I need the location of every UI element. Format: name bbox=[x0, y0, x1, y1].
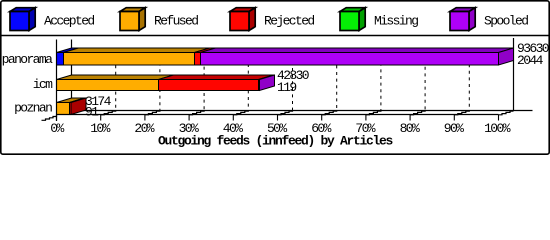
legend cube Accepted side face bbox=[29, 8, 35, 31]
legend cube Refused side face bbox=[139, 8, 145, 31]
svg-text:Spooled: Spooled bbox=[484, 13, 528, 28]
legend cube Accepted top face bbox=[10, 8, 35, 12]
back-right wall (100% back plane) bbox=[513, 38, 515, 111]
legend cube Rejected top face bbox=[230, 8, 255, 12]
gridline 20% (dashed) bbox=[159, 48, 161, 110]
gridline 80% (dashed) bbox=[424, 48, 426, 110]
x-axis tick 30% 3d flag diagonal bbox=[189, 111, 204, 115]
legend cube Refused top face bbox=[120, 8, 145, 12]
svg-text:Missing: Missing bbox=[374, 13, 418, 28]
x-axis tick 10% bbox=[100, 115, 102, 121]
back-left wall (0% back plane) bbox=[71, 40, 73, 111]
axis front-left corner diagonal bbox=[42, 115, 57, 120]
legend cube Refused front face bbox=[120, 12, 139, 31]
x-axis tick 100% bbox=[498, 115, 500, 121]
legend cube Missing front face bbox=[340, 12, 359, 31]
legend cube Rejected side face bbox=[249, 8, 255, 31]
x-axis tick 30% bbox=[188, 115, 190, 121]
bar panorama segment red top face bbox=[195, 48, 216, 53]
back axis line bbox=[72, 110, 533, 112]
x-axis tick 10% 3d flag diagonal bbox=[101, 111, 116, 115]
svg-text:poznan: poznan bbox=[14, 101, 52, 116]
gridline 50% (dashed) bbox=[292, 48, 294, 110]
x-axis tick 50% 3d flag diagonal bbox=[278, 111, 293, 115]
svg-text:Rejected: Rejected bbox=[264, 13, 314, 28]
x-axis tick 70% bbox=[365, 115, 367, 121]
outer border bbox=[1, 1, 549, 154]
bar panorama segment blue front face bbox=[57, 53, 64, 66]
legend separator line bbox=[1, 35, 549, 37]
gridline 40% (dashed) bbox=[247, 48, 249, 110]
bar panorama end cap purple bbox=[499, 48, 514, 65]
x-axis tick 90% bbox=[453, 115, 455, 121]
svg-text:icm: icm bbox=[33, 77, 53, 92]
bar icm segment red top face bbox=[159, 75, 274, 80]
legend cube Spooled side face bbox=[469, 8, 475, 31]
svg-text:panorama: panorama bbox=[2, 52, 53, 67]
axis front-right corner diagonal bbox=[499, 111, 514, 115]
legend cube Missing side face bbox=[359, 8, 365, 31]
gridline 90% (dashed) bbox=[468, 48, 470, 110]
svg-text:119: 119 bbox=[277, 80, 296, 95]
bar icm segment purple top face bbox=[259, 75, 275, 80]
svg-text:Refused: Refused bbox=[154, 13, 198, 28]
x-axis tick 0% bbox=[56, 115, 58, 121]
bar poznan end cap red bbox=[71, 98, 86, 115]
x-axis tick 90% 3d flag diagonal bbox=[454, 111, 469, 115]
legend cube Missing top face bbox=[340, 8, 365, 12]
svg-text:2044: 2044 bbox=[517, 53, 544, 68]
x-axis tick 80% 3d flag diagonal bbox=[410, 111, 425, 115]
legend cube Spooled top face bbox=[450, 8, 475, 12]
bar panorama segment orange front face bbox=[64, 53, 195, 66]
x-axis tick 70% 3d flag diagonal bbox=[366, 111, 381, 115]
gridline 60% (dashed) bbox=[336, 48, 338, 110]
svg-text:0%: 0% bbox=[50, 121, 64, 136]
svg-text:20%: 20% bbox=[134, 121, 154, 136]
x-axis tick 20% bbox=[144, 115, 146, 121]
x-axis tick 40% 3d flag diagonal bbox=[233, 111, 248, 115]
legend cube Spooled front face bbox=[450, 12, 469, 31]
bar panorama segment orange top face bbox=[64, 48, 210, 53]
bar poznan segment red top face bbox=[70, 98, 87, 103]
svg-text:Accepted: Accepted bbox=[44, 13, 94, 28]
bar icm segment orange front face bbox=[57, 80, 159, 91]
bar poznan segment orange top face bbox=[57, 98, 85, 103]
gridline 10% (dashed) bbox=[115, 48, 117, 110]
gridline 70% (dashed) bbox=[380, 48, 382, 110]
legend cube Rejected front face bbox=[230, 12, 249, 31]
legend cube Accepted front face bbox=[10, 12, 29, 31]
x-axis tick 40% bbox=[232, 115, 234, 121]
svg-text:10%: 10% bbox=[90, 121, 110, 136]
bar panorama segment blue top face bbox=[57, 48, 79, 53]
bar icm segment orange top face bbox=[57, 75, 174, 80]
x-axis tick 20% 3d flag diagonal bbox=[145, 111, 160, 115]
bar icm segment purple front face bbox=[259, 80, 260, 91]
svg-text:100%: 100% bbox=[484, 121, 511, 136]
bar panorama segment purple front face bbox=[201, 53, 499, 66]
x-axis tick 60% bbox=[321, 115, 323, 121]
bar panorama segment red front face bbox=[195, 53, 201, 66]
svg-text:90%: 90% bbox=[444, 121, 464, 136]
x-axis tick 50% bbox=[277, 115, 279, 121]
y-axis front-left wall bbox=[56, 40, 58, 122]
svg-text:Outgoing feeds (innfeed) by Ar: Outgoing feeds (innfeed) by Articles bbox=[158, 133, 394, 148]
svg-text:91: 91 bbox=[85, 105, 99, 120]
bar poznan segment orange front face bbox=[57, 103, 70, 115]
bar icm segment red front face bbox=[159, 80, 259, 91]
front axis line bbox=[57, 114, 499, 116]
x-axis tick 80% bbox=[409, 115, 411, 121]
bar icm end cap purple bbox=[260, 75, 275, 91]
svg-text:80%: 80% bbox=[400, 121, 420, 136]
bar panorama segment purple top face bbox=[201, 48, 514, 53]
bar poznan segment red front face bbox=[70, 103, 72, 115]
x-axis tick 60% 3d flag diagonal bbox=[322, 111, 337, 115]
gridline 30% (dashed) bbox=[203, 48, 205, 110]
